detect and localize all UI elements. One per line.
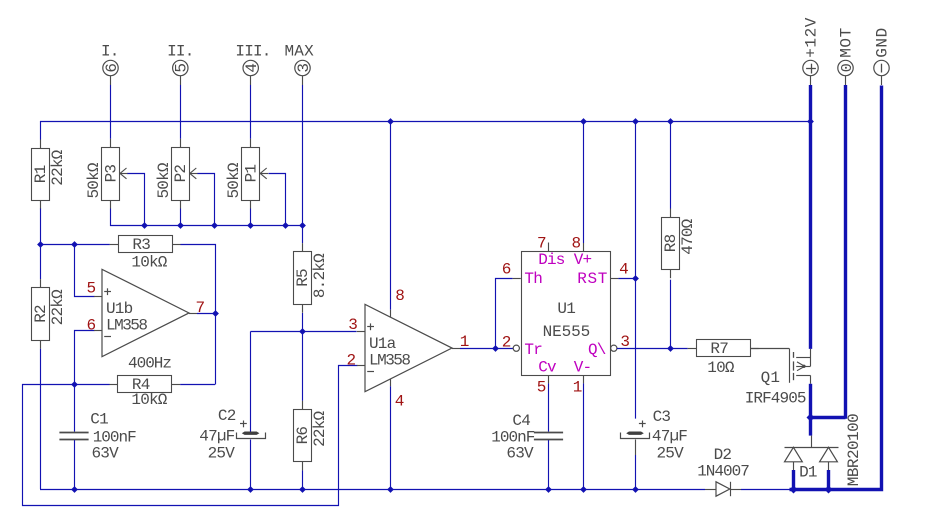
wire RST vertical line from bus to C3 [635,121,637,419]
svg-text:I.: I. [101,43,119,61]
junction R8 / Q output node [667,345,674,352]
connector III. (pin 4) [250,76,252,85]
svg-text:V+: V+ [574,251,592,269]
svg-text:U1: U1 [557,300,575,318]
capacitor C2 47uF [250,332,252,432]
resistor R8 470 [670,209,672,218]
svg-text:2: 2 [346,351,355,369]
svg-text:R6: R6 [294,427,312,445]
wire feedback loop U1b- to U1a- (left) [23,366,358,506]
wire Q output (pin 3) to R7 [617,348,688,350]
wire P3 bottom to wiper bus [111,209,303,226]
svg-text:10kΩ: 10kΩ [131,253,167,271]
svg-text:R7: R7 [710,340,728,358]
svg-text:5: 5 [86,279,95,297]
capacitor C4 100nF [534,432,563,434]
svg-text:Tr: Tr [524,341,542,359]
wire R4 right lead to output node [180,384,215,386]
resistor R3 10k [110,244,119,246]
wire R6 bottom to rail [302,470,304,489]
svg-text:1: 1 [573,379,582,397]
wire R5 top to wiper bus [302,225,304,243]
wire Tr connection (pin 2 of 555) [495,348,513,350]
svg-text:0: 0 [839,63,856,72]
junction C2 / ground rail [247,486,254,493]
svg-text:LM358: LM358 [369,352,410,370]
svg-text:P2: P2 [172,165,190,183]
wire R2 bottom to ground rail [40,349,42,489]
svg-text:P1: P1 [243,165,261,183]
connector +12V [810,76,812,85]
svg-text:10kΩ: 10kΩ [131,391,167,409]
svg-text:50kΩ: 50kΩ [85,162,103,198]
svg-text:III.: III. [235,43,270,61]
wire V- (pin 1) to rail [583,375,585,383]
junction bus / 555 V+ line [580,118,587,125]
resistor R5 8.2k [302,243,304,252]
svg-text:R1: R1 [32,165,50,183]
svg-text:8: 8 [571,234,580,252]
junction U1a pin4 / ground rail [387,486,394,493]
diode D2 1N4007 [705,489,716,491]
resistor R7 10 [688,348,697,350]
svg-text:C3: C3 [653,408,671,426]
svg-text:D2: D2 [714,446,732,464]
wire U1a output (pin 1) [452,348,460,350]
junction C4 / ground rail [545,486,552,493]
wire connector III to P1 [250,85,252,139]
junction U1a output / Th / Tr node [492,345,499,352]
svg-text:25V: 25V [208,444,236,462]
svg-text:NE555: NE555 [543,323,591,341]
junction R6 / ground rail [299,486,306,493]
svg-text:R5: R5 [294,269,312,287]
thick wire D1 left anode to rail [792,470,795,489]
wire P1 wiper [269,174,286,226]
wire P1 bottom [250,209,252,226]
connector MOT [845,76,847,85]
svg-text:47µF: 47µF [652,428,687,446]
svg-text:Dis: Dis [538,251,565,269]
svg-text:3: 3 [348,316,357,334]
svg-text:5: 5 [537,379,546,397]
svg-text:RST: RST [577,270,608,288]
thick wire +12V to Q1 source [809,85,812,349]
wire U1a V+ (pin 8) to bus [390,121,392,310]
svg-text:63V: 63V [506,445,534,463]
junction P1 bottom / bus [247,222,254,229]
svg-text:MOT: MOT [837,27,855,58]
connector I. (pin 6) [110,76,112,85]
wire Cv (pin 5) to C4 [548,375,550,383]
junction bus / RST line [632,118,639,125]
capacitor C3 47uF [626,432,644,435]
svg-text:4: 4 [395,393,404,411]
thick wire drain node to MOT wire [809,416,846,419]
junction P3 wiper / bus [141,222,148,229]
junction P2 wiper / bus [211,222,218,229]
junction U1a +input node (R5/R6/C2) [299,328,306,335]
junction RST node [632,275,639,282]
thick wire D1 right anode to rail [827,470,830,489]
wire U1b -input (pin 6) [75,331,95,385]
thick wire Q1 drain to MOT/D1 node [809,384,812,417]
dual schottky diode D1 MBR20100 [811,436,813,448]
wire R7 to gate of Q1 [750,348,789,350]
svg-text:7: 7 [196,299,205,317]
svg-text:6: 6 [502,261,511,279]
svg-text:6: 6 [103,64,121,73]
svg-text:U1b: U1b [106,300,133,318]
svg-text:3: 3 [620,333,629,351]
svg-text:400Hz: 400Hz [128,355,171,373]
timer IC U1 NE555 [522,252,611,376]
svg-text:IRF4905: IRF4905 [745,390,806,408]
svg-text:10Ω: 10Ω [707,359,735,377]
junction U1b output node [212,310,219,317]
wire U1a V- (pin 4) to rail [390,379,392,386]
resistor R2 22k [40,279,42,288]
ground rail wire [40,489,705,491]
wire P2 bottom [180,209,182,226]
junction bus / R8 line [667,118,674,125]
wire R1 top to bus [40,121,42,140]
svg-text:II.: II. [167,43,193,61]
resistor R1 22k [40,140,42,149]
svg-text:8: 8 [395,287,404,305]
thick wire drain node down to D1 [809,417,812,436]
svg-text:47µF: 47µF [199,428,234,446]
svg-text:1: 1 [460,333,469,351]
wire Th connection (pin 6 of 555) [496,279,513,349]
junction P1 wiper / bus [282,222,289,229]
svg-text:6: 6 [86,316,95,334]
junction bus / +12V connector [807,118,814,125]
svg-text:Q1: Q1 [761,369,781,387]
inverting bubble on Tr pin [513,345,519,351]
wire R3 right to output node [181,245,216,385]
svg-text:U1a: U1a [369,335,397,353]
junction R4 left / C1 / feedback [71,381,78,388]
svg-text:25V: 25V [657,445,685,463]
svg-text:R3: R3 [132,236,150,254]
connector MAX (pin 3) [302,76,304,85]
svg-text:7: 7 [537,234,546,252]
wire node A horizontal to R3 [40,244,110,246]
svg-text:100nF: 100nF [93,428,136,446]
junction 555 V- / ground rail [580,486,587,493]
svg-text:4: 4 [619,261,628,279]
svg-text:MBR20100: MBR20100 [845,414,863,486]
connector II. (pin 5) [180,76,182,85]
wire +12V bus (y=121) [40,121,811,123]
svg-text:D1: D1 [799,463,817,481]
thick wire MOT down to drain node [844,85,847,419]
wire R8 bottom to Q node [670,280,672,349]
svg-text:C2: C2 [218,407,236,425]
pin stub Dis (pin 7, unconnected) [548,243,550,252]
svg-text:R2: R2 [32,305,50,323]
wire R5 bottom to U1a +node [302,313,304,332]
wire R2 top node A [40,244,42,279]
svg-text:V-: V- [574,358,592,376]
resistor R6 22k [302,401,304,410]
svg-text:22kΩ: 22kΩ [49,289,67,325]
wire RST (pin 4) to +12V line [610,278,618,280]
svg-text:2: 2 [502,334,511,352]
svg-text:4: 4 [243,64,261,73]
wire connector II to P2 [180,85,182,139]
svg-text:8.2kΩ: 8.2kΩ [311,253,329,298]
svg-text:50kΩ: 50kΩ [225,162,243,198]
svg-text:22kΩ: 22kΩ [311,411,329,447]
wire P3 wiper [128,174,145,226]
junction D1 left anode / rail [790,486,798,494]
junction P2 bottom / bus [177,222,184,229]
pin stub/wire V+ (pin 8) [583,121,585,243]
svg-text:50kΩ: 50kΩ [155,162,173,198]
inverting bubble on Q pin [611,345,617,351]
transistor Q1 IRF4905 P-MOSFET [789,348,791,382]
svg-text:63V: 63V [92,445,120,463]
op-amp U1a LM358 [365,304,452,391]
svg-text:22kΩ: 22kΩ [49,149,67,185]
wire R8 top to bus [670,121,672,209]
op-amp U1b LM358 [102,269,189,356]
svg-text:+12V: +12V [802,17,820,58]
wire U1b output (pin 7) [189,313,197,315]
junction node A (R1/R2/R3) [37,241,44,248]
svg-text:P3: P3 [102,165,120,183]
wire connector MAX down to wiper bus [302,85,304,225]
connector GND [881,76,883,85]
wire R4 left lead to junction [74,384,110,386]
svg-text:R8: R8 [662,234,680,252]
wire P2 wiper [198,174,215,226]
junction C3 / ground rail [632,486,639,493]
potentiometer P1 50k [250,139,252,148]
junction D1 right anode / rail [825,486,833,494]
svg-text:100nF: 100nF [491,428,534,446]
svg-text:MAX: MAX [284,43,314,61]
svg-text:5: 5 [173,64,191,73]
wire U1b +input (pin 5) [75,245,95,297]
wire R6 top to +node [302,332,304,401]
svg-text:GND: GND [873,27,891,58]
junction C1 / ground rail [71,486,78,493]
junction drain node [807,414,815,422]
thick wire GND down to rail corner [790,86,882,490]
svg-text:470Ω: 470Ω [679,218,697,254]
wire U1a +input (pin 3) [251,331,357,333]
svg-text:Q\: Q\ [588,341,606,359]
junction wiper bus / R5-MAX node [299,222,306,229]
svg-text:C1: C1 [90,411,108,429]
potentiometer P2 50k [180,139,182,148]
potentiometer P3 50k [110,139,112,148]
wire R1 bottom to node A [40,209,42,245]
resistor R4 10k [109,384,118,386]
svg-text:LM358: LM358 [106,317,147,335]
junction node A / U1b +input drop [71,241,78,248]
junction bus / U1a pin8 line [387,118,394,125]
svg-text:Th: Th [524,270,542,288]
svg-text:Cv: Cv [538,358,557,376]
svg-text:1N4007: 1N4007 [697,462,749,480]
svg-text:3: 3 [295,64,313,73]
wire connector I to P3 [110,85,112,139]
capacitor C1 100nF [74,384,76,432]
